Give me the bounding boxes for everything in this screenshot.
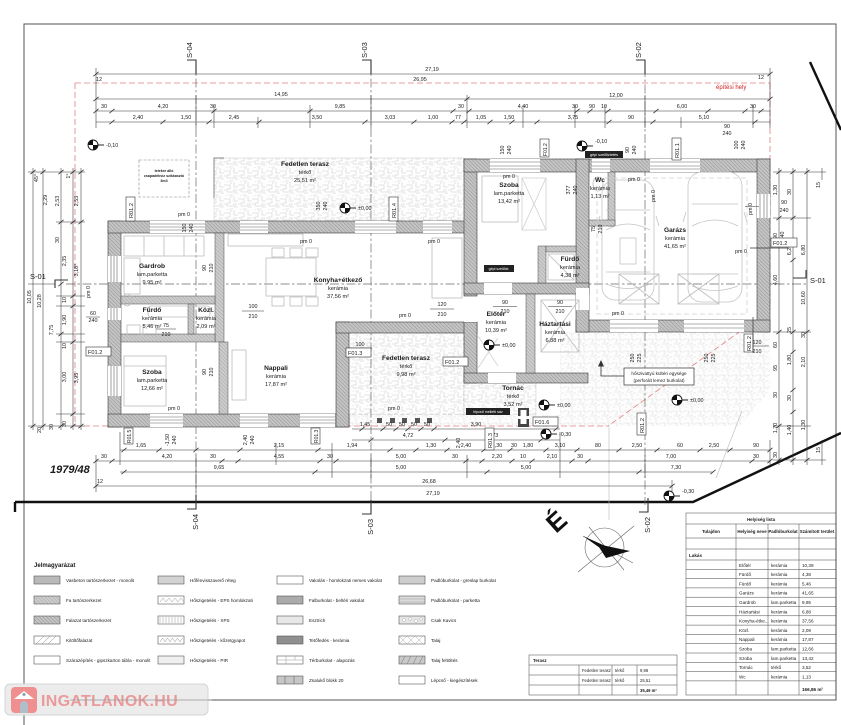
- svg-text:90: 90: [589, 104, 595, 110]
- window garage top: [650, 159, 700, 172]
- svg-text:30: 30: [773, 452, 779, 458]
- svg-text:50: 50: [424, 422, 430, 428]
- svg-text:14,95: 14,95: [274, 92, 288, 98]
- S-03 top flag: [362, 60, 371, 74]
- svg-text:2,50: 2,50: [632, 443, 643, 449]
- svg-text:F01.2: F01.2: [543, 143, 549, 156]
- svg-text:1,80: 1,80: [523, 443, 534, 449]
- covered terrace paving (Fedetlen terasz 9,98): [348, 333, 464, 415]
- svg-text:Hőszigetelés - PIR: Hőszigetelés - PIR: [190, 658, 229, 663]
- svg-text:pm 0: pm 0: [651, 190, 657, 202]
- legend col1 row5: [34, 656, 60, 664]
- svg-text:30: 30: [210, 104, 216, 110]
- svg-text:10,39 m²: 10,39 m²: [485, 328, 507, 334]
- svg-text:R01.5: R01.5: [127, 429, 133, 443]
- room Gardrob: [137, 263, 169, 286]
- svg-text:Fa tartószerkezet: Fa tartószerkezet: [66, 598, 102, 603]
- svg-text:4,20: 4,20: [158, 104, 169, 110]
- svg-text:4,72: 4,72: [403, 433, 414, 439]
- svg-text:hőszivattyú kültéri egysége: hőszivattyú kültéri egysége: [631, 371, 687, 376]
- svg-text:1,40: 1,40: [787, 425, 793, 436]
- svg-text:csapadékvíz szikkasztó: csapadékvíz szikkasztó: [144, 174, 185, 178]
- svg-text:3,00: 3,00: [62, 372, 68, 383]
- svg-text:építési hely: építési hely: [716, 85, 746, 91]
- svg-text:térkő: térkő: [615, 668, 625, 673]
- szoba2 bed: [482, 176, 518, 222]
- rotated dim pair 2,40/240 bottom: [243, 435, 256, 446]
- svg-text:lépcső melletti sáv: lépcső melletti sáv: [473, 410, 503, 414]
- svg-text:3,75: 3,75: [568, 115, 579, 121]
- svg-text:6,80: 6,80: [801, 245, 807, 256]
- dim line 27,19: [96, 73, 770, 75]
- wall left outer: [108, 221, 121, 427]
- svg-text:Konyha+étkező: Konyha+étkező: [314, 277, 363, 284]
- svg-text:1,13: 1,13: [802, 674, 811, 679]
- svg-text:S-02: S-02: [643, 517, 652, 533]
- dim 100/210 konyha door: [348, 342, 372, 357]
- svg-text:4,38: 4,38: [802, 572, 811, 577]
- svg-text:30: 30: [452, 454, 458, 460]
- svg-text:4,20: 4,20: [162, 454, 173, 460]
- dim rot 350/240 terrace: [316, 202, 329, 211]
- svg-text:210: 210: [438, 312, 447, 318]
- dim 100/210 kozl: [242, 304, 264, 320]
- svg-text:S-02: S-02: [634, 42, 643, 58]
- room Szoba1: [137, 369, 169, 392]
- legend col3 row3: [277, 616, 303, 624]
- window szoba left: [108, 366, 121, 396]
- level -0,30 tornac front: [541, 429, 557, 439]
- svg-text:100: 100: [356, 342, 365, 348]
- svg-text:80: 80: [595, 443, 601, 449]
- wall nappali right: [336, 322, 349, 427]
- wall jog terrace top: [336, 322, 477, 333]
- wall wc divider vertical: [608, 172, 615, 226]
- svg-text:10: 10: [601, 104, 607, 110]
- svg-text:kerámia: kerámia: [771, 619, 788, 624]
- garage car 1: [597, 180, 659, 300]
- level -0,30 on boundary: [664, 491, 680, 501]
- dim row b: [352, 439, 560, 441]
- svg-text:10,39: 10,39: [802, 563, 814, 568]
- svg-text:240: 240: [250, 436, 256, 445]
- dim row f 26,68: [96, 485, 672, 487]
- svg-text:S-01: S-01: [30, 272, 46, 281]
- svg-text:9,95: 9,95: [802, 600, 811, 605]
- svg-text:75: 75: [163, 323, 169, 329]
- svg-text:9,98 m²: 9,98 m²: [397, 372, 416, 378]
- svg-text:térkő: térkő: [771, 665, 782, 670]
- svg-text:2,10: 2,10: [801, 357, 807, 368]
- level -0,10 left: [88, 140, 104, 150]
- svg-text:pm 0: pm 0: [503, 174, 515, 180]
- svg-text:90: 90: [557, 300, 563, 306]
- svg-text:2,09 m²: 2,09 m²: [197, 324, 216, 330]
- svg-text:Vasbeton tartószerkezet - mono: Vasbeton tartószerkezet - monolit: [66, 578, 135, 583]
- svg-text:27,19: 27,19: [425, 67, 439, 73]
- svg-text:kerámia: kerámia: [328, 286, 349, 292]
- svg-text:10,60: 10,60: [801, 291, 807, 305]
- svg-text:1,30: 1,30: [773, 185, 779, 196]
- room Szoba2: [494, 182, 526, 205]
- svg-text:INGATLANOK.HU: INGATLANOK.HU: [41, 693, 178, 710]
- svg-text:15: 15: [816, 182, 822, 188]
- window wc top: [592, 159, 610, 172]
- svg-text:Fedetlen terasz: Fedetlen terasz: [582, 678, 611, 683]
- svg-text:240: 240: [780, 208, 789, 214]
- svg-text:7,00: 7,00: [666, 454, 677, 460]
- svg-text:26,68: 26,68: [422, 479, 436, 485]
- S-01 left flag: [55, 280, 68, 288]
- legend col2 row4: [158, 636, 184, 644]
- eloter door swing: [478, 336, 498, 368]
- wc toilet: [593, 177, 603, 191]
- svg-text:pm 0: pm 0: [399, 313, 411, 319]
- svg-text:Számított terület: Számított terület: [800, 529, 835, 534]
- dim rot 250/225 paving 1: [630, 354, 643, 363]
- furdo2 shower: [548, 254, 574, 280]
- svg-text:Padlóburkolat - parketta: Padlóburkolat - parketta: [431, 598, 480, 603]
- svg-text:10: 10: [520, 454, 526, 460]
- svg-text:210: 210: [209, 368, 215, 377]
- level 0,00 terrace: [340, 203, 356, 213]
- S-03 bottom flag: [362, 500, 371, 514]
- room Wc: [590, 177, 611, 200]
- svg-text:4,38 m²: 4,38 m²: [561, 273, 580, 279]
- svg-text:3,03: 3,03: [385, 115, 396, 121]
- svg-text:30: 30: [572, 104, 578, 110]
- window szoba2 top: [490, 159, 540, 172]
- svg-text:telekre álló: telekre álló: [155, 169, 175, 173]
- S-02 top flag: [636, 60, 645, 74]
- dim 120/210 right: [745, 340, 769, 355]
- dim rot 75/210 garage door: [591, 190, 657, 233]
- svg-text:Közl.: Közl.: [739, 628, 749, 633]
- svg-text:S-03: S-03: [360, 42, 369, 58]
- svg-text:13,42: 13,42: [802, 656, 814, 661]
- svg-text:7,30: 7,30: [671, 465, 682, 471]
- entrance step blocks F01.6: [518, 408, 529, 427]
- svg-text:100: 100: [249, 304, 258, 310]
- heat pump label box: [624, 368, 694, 385]
- svg-text:10,28: 10,28: [37, 294, 43, 308]
- svg-text:3m3: 3m3: [160, 179, 167, 183]
- svg-text:3,52 m²: 3,52 m²: [504, 402, 523, 408]
- window konyha top 2: [355, 221, 396, 233]
- svg-text:150: 150: [500, 146, 506, 155]
- nappali couch: [232, 350, 246, 400]
- legend col1 row2: [34, 596, 60, 604]
- svg-text:F01.3: F01.3: [348, 351, 362, 357]
- svg-text:pm 0: pm 0: [168, 406, 180, 412]
- svg-text:12: 12: [758, 75, 764, 81]
- svg-text:2,40: 2,40: [461, 443, 472, 449]
- svg-text:Hőszigetelés - XPS: Hőszigetelés - XPS: [190, 618, 230, 623]
- szoba1 bed: [124, 356, 166, 406]
- svg-text:7,75: 7,75: [49, 325, 55, 336]
- svg-text:25,51 m²: 25,51 m²: [294, 178, 316, 184]
- svg-text:Háztartási: Háztartási: [739, 609, 760, 614]
- svg-text:10: 10: [62, 297, 68, 303]
- dim row porch: [352, 428, 560, 430]
- svg-text:Wc: Wc: [595, 177, 605, 184]
- level -0,10 top center: [577, 141, 593, 151]
- svg-text:26,95: 26,95: [413, 77, 427, 83]
- svg-text:30: 30: [801, 332, 807, 338]
- garage car 2: [683, 172, 747, 302]
- svg-text:250: 250: [704, 354, 710, 363]
- wall bottom left section: [108, 414, 349, 427]
- svg-text:25: 25: [787, 327, 793, 333]
- dim row small 1: [96, 110, 770, 112]
- svg-text:Tetőfedés - kerámia: Tetőfedés - kerámia: [309, 638, 350, 643]
- garage dashed outline: [597, 178, 747, 314]
- svg-text:60: 60: [90, 311, 96, 317]
- svg-text:12,00: 12,00: [609, 93, 623, 99]
- legend col4 row3: [399, 616, 425, 624]
- svg-text:Esztrich: Esztrich: [309, 618, 326, 623]
- dim line 14,95 / 12,00: [96, 98, 770, 100]
- property boundary left stub: [14, 502, 16, 512]
- svg-text:F01.2: F01.2: [445, 360, 459, 366]
- svg-text:lam.parketta: lam.parketta: [771, 600, 797, 605]
- wall top right section: [464, 159, 770, 172]
- svg-text:2,20: 2,20: [492, 454, 503, 460]
- svg-text:Vakolás - homlokzati nemes vak: Vakolás - homlokzati nemes vakolat: [309, 578, 383, 583]
- door opening szoba block bottom: [484, 283, 512, 294]
- svg-text:Fürdő: Fürdő: [561, 256, 580, 263]
- svg-text:2,45: 2,45: [229, 115, 240, 121]
- wall gardrob divider vertical: [215, 233, 224, 342]
- wall garage left: [576, 159, 589, 332]
- wall furdo2 top: [546, 246, 576, 252]
- svg-text:pm 0: pm 0: [300, 239, 312, 245]
- svg-text:210: 210: [598, 225, 604, 234]
- svg-text:lam.parketta: lam.parketta: [137, 378, 169, 384]
- svg-text:kerámia: kerámia: [545, 330, 566, 336]
- svg-text:225: 225: [637, 354, 643, 363]
- svg-text:Hőfénvisszaverő réteg: Hőfénvisszaverő réteg: [190, 578, 236, 583]
- dark label gepi szellozes 2: [484, 265, 514, 272]
- svg-text:9,65: 9,65: [214, 465, 225, 471]
- svg-text:90: 90: [625, 147, 631, 153]
- svg-text:kerámia: kerámia: [771, 581, 788, 586]
- window gardrob top: [150, 221, 205, 233]
- svg-text:240: 240: [573, 186, 579, 195]
- svg-text:30: 30: [750, 104, 756, 110]
- svg-text:Falburkolat - beltéri vakolat: Falburkolat - beltéri vakolat: [309, 598, 365, 603]
- svg-text:Háztartási: Háztartási: [539, 321, 571, 328]
- svg-text:Fürdő: Fürdő: [739, 581, 751, 586]
- furdo1 toilet: [123, 294, 132, 306]
- svg-text:100: 100: [734, 141, 740, 150]
- svg-text:120: 120: [438, 302, 447, 308]
- level 0,00 tornac: [539, 400, 555, 410]
- dim row small 2: [96, 121, 770, 123]
- dim 60/240 garage right door: [745, 200, 789, 214]
- svg-text:25,51: 25,51: [640, 678, 651, 683]
- svg-text:kerámia: kerámia: [142, 316, 163, 322]
- svg-text:3,50: 3,50: [312, 115, 323, 121]
- svg-text:45°: 45°: [34, 174, 40, 182]
- svg-text:pm 0: pm 0: [748, 203, 754, 215]
- wall top left section: [108, 221, 470, 233]
- svg-text:kerámia: kerámia: [266, 374, 287, 380]
- svg-text:1,05: 1,05: [476, 115, 487, 121]
- svg-text:3,95: 3,95: [74, 373, 80, 384]
- svg-text:30: 30: [327, 454, 333, 460]
- svg-text:41,65: 41,65: [802, 591, 814, 596]
- level 0,00 garage front: [672, 395, 688, 405]
- S-02 bottom flag: [639, 498, 648, 512]
- paving strip below covered terrace: [348, 415, 564, 426]
- svg-text:1,80: 1,80: [787, 355, 793, 366]
- svg-text:pm 0: pm 0: [612, 311, 624, 317]
- section line S-04: [66, 62, 806, 510]
- svg-text:50: 50: [399, 422, 405, 428]
- svg-text:Térburkolat - alapozás: Térburkolat - alapozás: [309, 658, 355, 663]
- svg-text:Szoba: Szoba: [142, 369, 162, 376]
- svg-text:20: 20: [37, 427, 43, 433]
- svg-text:Szoba: Szoba: [739, 647, 752, 652]
- window nappali bottom: [300, 414, 335, 427]
- svg-text:37,56 m²: 37,56 m²: [327, 294, 349, 300]
- svg-text:R01.2: R01.2: [640, 418, 646, 433]
- main terrace paving (Fedetlen terasz 25,51): [214, 158, 464, 222]
- svg-text:5,00: 5,00: [521, 465, 532, 471]
- wall garage right: [757, 159, 770, 332]
- svg-text:377: 377: [566, 186, 572, 195]
- dim rot 90/210 gardrob: [202, 264, 215, 273]
- svg-text:Garázs: Garázs: [664, 227, 686, 234]
- svg-text:75: 75: [591, 226, 597, 232]
- konyha top counter: [228, 234, 303, 246]
- door opening eloter bottom (entrance): [488, 373, 516, 383]
- room Haztartasi: [539, 321, 571, 344]
- svg-text:(perforált lemez burkolat): (perforált lemez burkolat): [633, 378, 685, 383]
- svg-text:150: 150: [182, 224, 188, 233]
- svg-text:2,50: 2,50: [709, 443, 720, 449]
- svg-text:1,30: 1,30: [426, 443, 437, 449]
- room Furdo1: [142, 307, 163, 330]
- svg-text:2,29: 2,29: [43, 195, 49, 206]
- furdo1 basins: [127, 325, 140, 335]
- svg-text:35,49 m²: 35,49 m²: [640, 688, 657, 693]
- svg-text:210: 210: [162, 332, 171, 338]
- svg-text:9,85: 9,85: [335, 104, 346, 110]
- dim 75/210 furdo1: [156, 323, 176, 338]
- svg-text:225: 225: [711, 354, 717, 363]
- svg-text:kerámia: kerámia: [771, 591, 788, 596]
- svg-text:90: 90: [724, 124, 730, 130]
- svg-text:5,00: 5,00: [396, 465, 407, 471]
- dim rot 150/240 near szoba2: [500, 146, 513, 155]
- svg-text:-1,50: -1,50: [165, 434, 171, 446]
- legend col4 row5: [399, 656, 425, 664]
- svg-text:10,05: 10,05: [27, 290, 33, 304]
- legend col4 row2: [399, 596, 425, 604]
- window furdo left: [108, 308, 121, 320]
- svg-text:gépi szellőztetés: gépi szellőztetés: [590, 153, 618, 157]
- svg-text:50: 50: [386, 422, 392, 428]
- garage bottom opening 1: [610, 320, 658, 332]
- svg-text:9,95 m²: 9,95 m²: [143, 280, 162, 286]
- svg-text:1,00: 1,00: [428, 115, 439, 121]
- dim 90/210 haztartasi: [548, 300, 572, 315]
- rotated dim pair -150/240 bottom left: [165, 434, 178, 446]
- legend col4 row4: [399, 636, 425, 644]
- svg-text:térkő: térkő: [615, 678, 625, 683]
- svg-text:5,10: 5,10: [699, 115, 710, 121]
- svg-text:30: 30: [773, 392, 779, 398]
- svg-text:Fedetlen terasz: Fedetlen terasz: [582, 668, 611, 673]
- svg-text:240: 240: [741, 141, 747, 150]
- svg-text:térkő: térkő: [507, 394, 519, 400]
- svg-text:Lakás: Lakás: [689, 553, 702, 558]
- svg-text:Hőszigetelés - kőzetgyapot: Hőszigetelés - kőzetgyapot: [190, 638, 246, 643]
- svg-text:lam.parketta: lam.parketta: [771, 656, 797, 661]
- door opening garage left: [576, 288, 589, 310]
- svg-text:2,40: 2,40: [243, 435, 249, 446]
- svg-text:gépi szellőzt.: gépi szellőzt.: [489, 267, 510, 271]
- svg-text:térkő: térkő: [299, 170, 311, 176]
- legend col3 row6: [277, 676, 303, 684]
- legend col2 row5: [158, 656, 184, 664]
- svg-text:lam.parketta: lam.parketta: [494, 191, 526, 197]
- svg-text:30: 30: [753, 454, 759, 460]
- svg-text:±0,00: ±0,00: [358, 206, 371, 212]
- svg-text:1979/48: 1979/48: [50, 464, 91, 476]
- svg-text:F01.6: F01.6: [535, 420, 549, 426]
- svg-text:2,09: 2,09: [802, 628, 811, 633]
- svg-text:Wc: Wc: [739, 674, 746, 679]
- F/R reference labels: [86, 138, 797, 450]
- heat pump arrow: [601, 366, 624, 376]
- svg-text:Fürdő: Fürdő: [143, 307, 162, 314]
- svg-text:Csak Kavics: Csak Kavics: [431, 618, 457, 623]
- svg-text:kerámia: kerámia: [771, 628, 788, 633]
- svg-text:Padlóburkolat: Padlóburkolat: [768, 529, 798, 534]
- svg-text:2,53: 2,53: [55, 196, 61, 207]
- svg-text:17,87 m²: 17,87 m²: [265, 382, 287, 388]
- svg-text:210: 210: [249, 314, 258, 320]
- svg-text:50: 50: [411, 422, 417, 428]
- wall garage bottom: [576, 320, 770, 332]
- svg-text:41,65 m²: 41,65 m²: [664, 244, 686, 250]
- svg-text:5,46: 5,46: [802, 581, 811, 586]
- svg-text:240: 240: [89, 318, 98, 324]
- svg-text:Tulajdon: Tulajdon: [702, 529, 720, 534]
- window szoba bottom 2: [240, 414, 268, 427]
- svg-text:30: 30: [101, 454, 107, 460]
- room Garazs: [664, 227, 686, 250]
- svg-text:240: 240: [632, 146, 638, 155]
- svg-text:kerámia: kerámia: [771, 572, 788, 577]
- dim 90/210 eloter: [493, 300, 517, 315]
- svg-text:12,66: 12,66: [802, 647, 814, 652]
- S-04 top flag: [187, 60, 196, 74]
- svg-text:±0,00: ±0,00: [557, 403, 570, 409]
- svg-text:Gardrob: Gardrob: [139, 263, 165, 270]
- legend col1 row1: [34, 576, 60, 584]
- left 60/240 pair: [86, 311, 100, 324]
- svg-text:15: 15: [816, 447, 822, 453]
- svg-text:S-03: S-03: [366, 519, 375, 535]
- svg-text:1,65: 1,65: [136, 443, 147, 449]
- svg-text:30: 30: [62, 421, 68, 427]
- svg-text:R01.2: R01.2: [747, 336, 753, 351]
- garage right door: [757, 194, 770, 218]
